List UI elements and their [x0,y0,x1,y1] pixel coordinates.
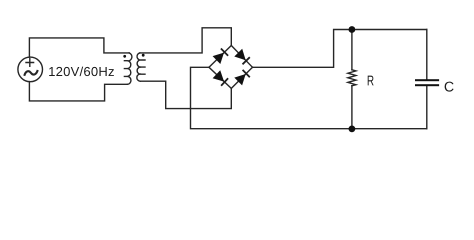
polarity dot primary [123,55,126,58]
capacitor C leads [426,30,428,129]
wire: secondary top to bridge top node [140,28,232,53]
resistor R zigzag [348,70,356,86]
plus sign of V1 [26,59,34,67]
capacitor C top plate [415,79,439,81]
diode D1 (left node to top node) [213,49,229,65]
diode D3 (left node to bottom node) [213,70,229,85]
resistor R leads [351,30,353,129]
wire: source bottom to transformer primary bottom [29,82,127,101]
bridge diamond arm top-right [231,46,252,68]
polarity dot secondary [142,54,145,57]
bridge diamond arm left-bottom [209,67,231,88]
wire: source top to transformer primary top [29,38,129,57]
capacitor C bottom plate [415,84,439,86]
bridge diamond arm left-top [209,46,231,68]
junction dot top (R top) [349,26,356,33]
transformer T1 primary winding [124,53,132,84]
wire: secondary bottom to bridge bottom node [140,81,231,108]
wire: bridge right node to positive top rail [253,30,427,68]
sine symbol of V1 [25,71,38,75]
diode D2 (top node to right node) [234,49,250,65]
bridge diamond arm bottom-right [231,67,252,88]
diode D4 (bottom node to right node) [234,70,250,86]
junction dot bottom (R bottom) [349,125,356,132]
transformer T1 secondary winding [137,53,146,81]
ac source V1 [18,57,43,82]
label C [445,82,454,92]
label R [368,76,374,86]
label 120V/60Hz [49,67,114,77]
wire: bridge left node to negative bottom rail [191,67,427,128]
